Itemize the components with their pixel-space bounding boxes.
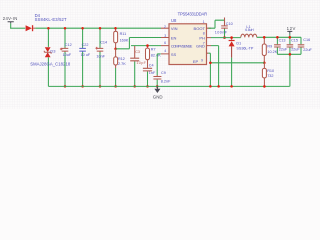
svg-text:R10: R10 <box>267 69 274 73</box>
svg-text:3: 3 <box>164 34 166 38</box>
svg-text:EP: EP <box>193 59 199 64</box>
wire BOOT <box>208 20 224 28</box>
svg-text:12V: 12V <box>287 26 296 31</box>
node D3 top junction <box>47 27 50 30</box>
svg-text:8: 8 <box>203 32 205 36</box>
node C13 top junction <box>276 36 279 39</box>
svg-text:6.8uH: 6.8uH <box>245 28 254 32</box>
node feedback junction <box>263 62 266 65</box>
svg-text:C10: C10 <box>226 22 233 26</box>
svg-text:24V-IN: 24V-IN <box>3 16 17 21</box>
node C14 top junction <box>99 27 102 30</box>
svg-text:C13: C13 <box>279 38 286 42</box>
wire output rail <box>257 37 301 44</box>
IC U8 TPS54331DDAR <box>161 12 211 65</box>
right pin stubs <box>207 28 212 53</box>
svg-text:2.7K: 2.7K <box>118 62 126 66</box>
svg-text:SS: SS <box>171 52 177 57</box>
svg-text:C16: C16 <box>303 38 310 42</box>
capacitor C22 <box>79 28 91 86</box>
svg-text:BOOT: BOOT <box>194 26 206 31</box>
node C15 top junction <box>289 36 292 39</box>
svg-text:10uF: 10uF <box>63 53 72 57</box>
resistor R10 <box>262 63 274 87</box>
capacitor C15 <box>287 37 301 54</box>
resistor R9 <box>262 37 277 63</box>
node C12 top junction <box>64 27 67 30</box>
inductor L1 <box>241 25 257 38</box>
svg-text:COMPVSENSE: COMPVSENSE <box>171 45 193 49</box>
svg-text:C12: C12 <box>65 43 72 47</box>
svg-text:C3: C3 <box>135 50 140 54</box>
node C22 top junction <box>81 27 84 30</box>
node R9 top junction <box>263 36 266 39</box>
resistor R7 <box>146 46 162 69</box>
pin numbers <box>164 20 205 62</box>
node D1 top junction <box>230 36 233 39</box>
node C10 bottom junction <box>223 36 226 39</box>
node D1 bottom junction <box>230 85 233 88</box>
capacitor C12 <box>60 28 72 86</box>
svg-text:169K: 169K <box>120 39 129 43</box>
capacitor C4 <box>143 63 156 86</box>
wire PH <box>211 37 241 39</box>
svg-text:732: 732 <box>267 74 273 78</box>
node R7 top junction <box>146 44 149 47</box>
wire VSENSE link <box>210 62 264 64</box>
svg-text:22uF: 22uF <box>279 47 288 51</box>
svg-text:7: 7 <box>203 41 205 45</box>
svg-text:U8: U8 <box>171 18 177 23</box>
wire mid rail <box>277 53 301 55</box>
node EP/VSENSE junction <box>209 62 212 65</box>
capacitor C3 <box>130 46 146 86</box>
left pin stubs <box>161 28 169 54</box>
node C4 bottom junction <box>146 85 149 88</box>
net flag 24V-IN <box>3 16 17 24</box>
wire C15 column down <box>289 54 291 86</box>
svg-text:R7: R7 <box>151 47 156 51</box>
ground rail <box>48 85 289 87</box>
svg-text:PH: PH <box>199 35 205 40</box>
svg-text:R12: R12 <box>118 57 125 61</box>
net flag 12V <box>287 26 296 37</box>
node R12 bottom junction <box>114 85 117 88</box>
TVS diode D3 <box>30 28 71 86</box>
diode D1 <box>229 38 254 87</box>
svg-text:C4: C4 <box>149 63 154 67</box>
svg-text:SS36L-TP: SS36L-TP <box>236 46 253 50</box>
resistor R11 <box>114 28 129 49</box>
svg-text:TPS54331DDAR: TPS54331DDAR <box>178 12 208 17</box>
svg-text:D3: D3 <box>50 48 56 53</box>
wire GND pin <box>211 46 219 87</box>
node R10 bottom junction <box>263 85 266 88</box>
svg-text:2: 2 <box>164 25 166 29</box>
svg-text:8.2nF: 8.2nF <box>161 79 171 83</box>
svg-text:SS84KL-E3/52T: SS84KL-E3/52T <box>35 17 67 22</box>
wire EN link <box>116 38 161 49</box>
svg-text:10 uF: 10 uF <box>81 53 91 57</box>
canvas background <box>0 0 320 109</box>
svg-text:6: 6 <box>164 41 166 45</box>
svg-text:10nF: 10nF <box>96 54 105 58</box>
svg-text:C14: C14 <box>100 40 107 44</box>
wire SS <box>157 54 161 75</box>
capacitor C16 <box>298 38 313 54</box>
svg-text:R11: R11 <box>120 32 127 36</box>
capacitor C9 <box>153 71 171 87</box>
svg-text:1: 1 <box>203 20 205 24</box>
svg-text:R9: R9 <box>267 44 272 48</box>
diode D4 <box>26 13 67 31</box>
svg-text:100nF: 100nF <box>215 31 228 35</box>
wire 24V-IN drop <box>10 23 12 28</box>
wire 24V-IN to D4 anode <box>10 27 25 29</box>
svg-text:VIN: VIN <box>171 26 178 31</box>
svg-text:22uF: 22uF <box>303 48 312 52</box>
svg-text:C9: C9 <box>161 71 166 75</box>
node GND pin bottom junction <box>217 85 220 88</box>
node C9 bottom junction <box>156 85 159 88</box>
svg-text:C22: C22 <box>82 43 89 47</box>
wire top rail <box>35 27 161 29</box>
svg-text:D1: D1 <box>236 41 241 45</box>
wire COMP <box>131 45 161 47</box>
node C15 mid junction <box>289 53 292 56</box>
node C22 bottom junction <box>81 85 84 88</box>
capacitor C13 <box>274 37 288 54</box>
wire EP <box>208 53 210 86</box>
resistor R12 <box>114 49 127 87</box>
svg-text:4: 4 <box>164 49 166 53</box>
node EN divider junction <box>114 48 117 51</box>
node C12 bottom junction <box>64 85 67 88</box>
capacitor C10 <box>215 18 233 38</box>
svg-text:9: 9 <box>201 59 203 63</box>
svg-text:C15: C15 <box>291 38 298 42</box>
svg-text:GND: GND <box>153 94 163 99</box>
node C14 bottom junction <box>99 85 102 88</box>
node C3 bottom junction <box>133 85 136 88</box>
svg-text:1nF: 1nF <box>149 71 156 75</box>
node EP bottom junction <box>209 85 212 88</box>
capacitor C14 <box>95 28 107 86</box>
node R11 top junction <box>114 27 117 30</box>
svg-text:22uF: 22uF <box>291 47 300 51</box>
ground symbol <box>154 86 160 93</box>
svg-text:10.2K: 10.2K <box>267 50 277 54</box>
svg-text:EN: EN <box>171 35 177 40</box>
svg-text:10pF: 10pF <box>136 61 146 65</box>
